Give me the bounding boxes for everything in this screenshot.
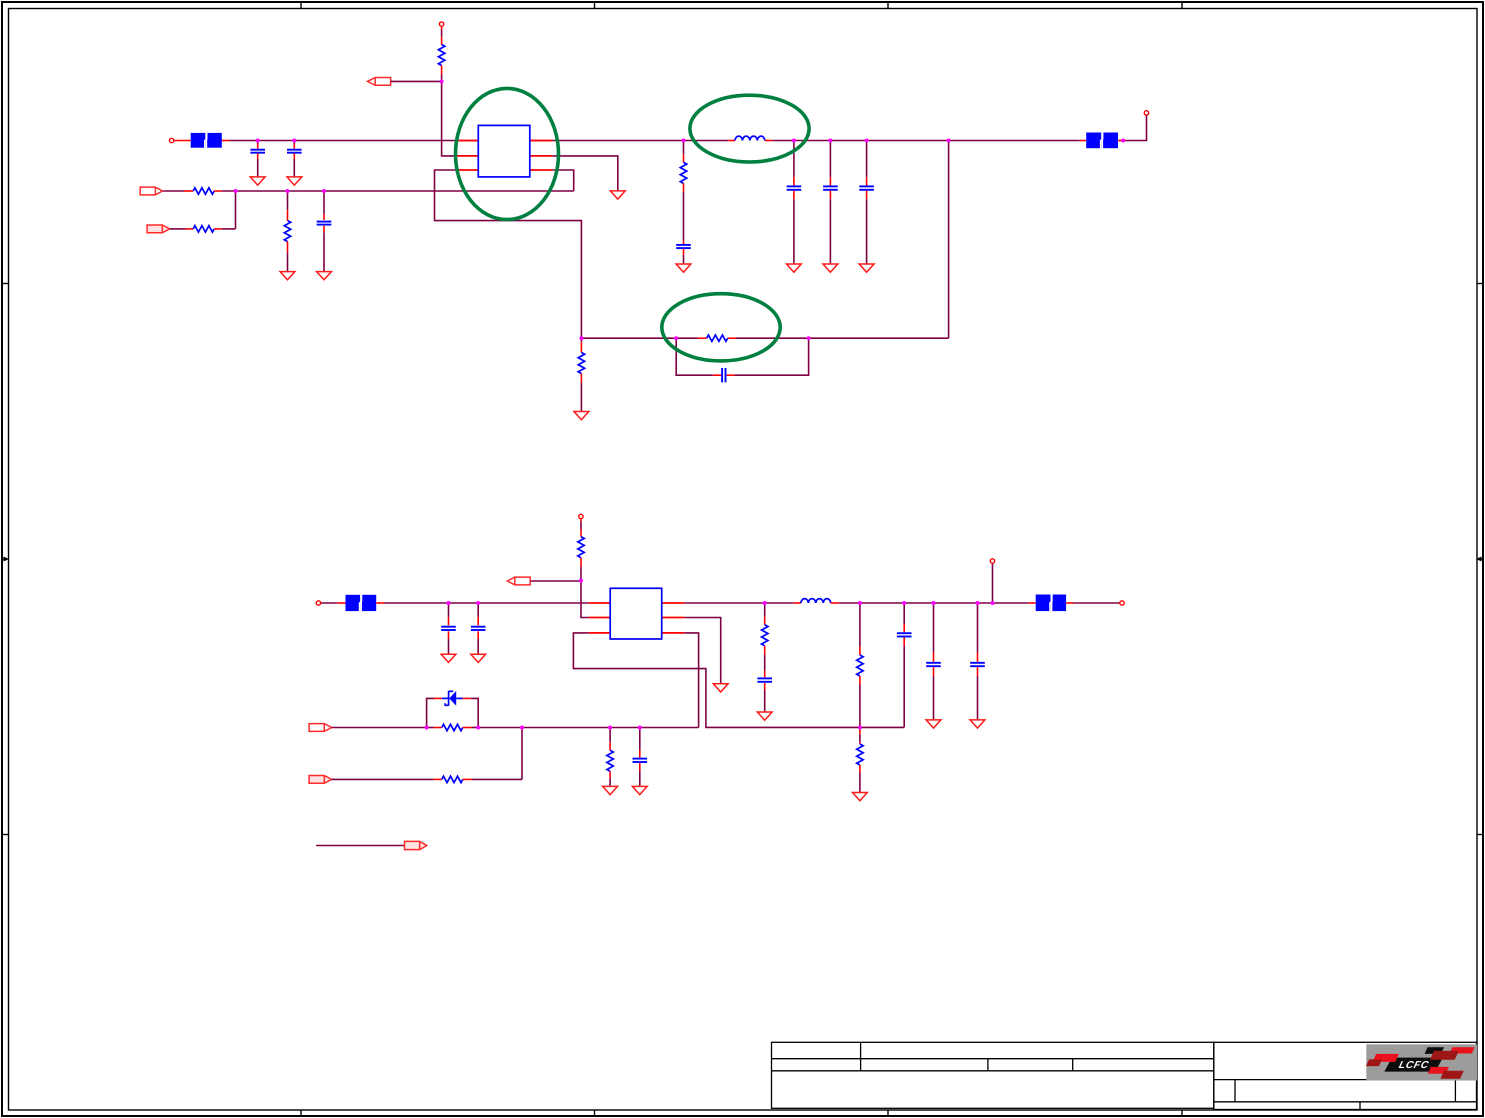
junction dots circuit2 — [425, 579, 995, 730]
wire FB3 pin stub — [376, 602, 384, 604]
inductor L2 — [794, 599, 839, 603]
border center arrow right — [1476, 557, 1483, 562]
capacitor C6 — [823, 141, 838, 265]
title block right row line 1 — [1214, 1079, 1477, 1081]
ground C7 — [859, 264, 874, 272]
logo black parallelogram — [1384, 1058, 1442, 1072]
border tick bottom 1 — [300, 1110, 302, 1116]
ground C2 — [287, 177, 302, 185]
title block left table outline — [772, 1042, 1214, 1108]
wire junction to U2 pin2 — [581, 581, 589, 618]
wire A5 to zener network — [332, 727, 427, 729]
wire A4 to junction — [530, 580, 581, 582]
capacitor C8 parallel — [676, 338, 808, 382]
ground R6 — [574, 412, 589, 420]
IC U2 body — [610, 588, 662, 639]
ground C6 — [823, 264, 838, 272]
IC U2 pin stubs — [589, 603, 685, 633]
off-page connector A5 — [309, 724, 332, 732]
logo red bar left — [1373, 1054, 1399, 1062]
resistor R4 riser — [438, 27, 444, 82]
ferrite bead FB1 — [191, 133, 222, 148]
border tick left 1 — [2, 283, 9, 285]
logo dark red bar left low — [1366, 1059, 1382, 1066]
off-page connector A4 — [507, 577, 530, 585]
capacitor C14 — [926, 603, 941, 720]
wire U1 pin2r to ground — [552, 156, 618, 191]
title block row line 1 — [772, 1058, 1214, 1060]
title block right divider v1 — [1234, 1080, 1236, 1102]
ground C1 — [250, 177, 265, 185]
title block right row line 2 — [1214, 1101, 1477, 1103]
title block divider v2 — [987, 1059, 989, 1071]
border tick bottom 2 — [594, 1110, 596, 1116]
IC U1 pin stubs — [456, 141, 552, 171]
logo red bar bottom right — [1428, 1067, 1449, 1074]
resistor R6 fb lower — [578, 338, 584, 411]
capacitor C12 — [757, 671, 772, 713]
off-page connector A3 — [147, 225, 170, 233]
capacitor C4 — [676, 241, 691, 264]
ferrite bead FB2 — [1080, 133, 1126, 149]
resistor R2 — [170, 226, 236, 232]
wire output to FB row — [948, 141, 950, 339]
inductor L1 — [728, 136, 772, 140]
svg-text:LCFC: LCFC — [1398, 1060, 1431, 1071]
wire U2 pin3r to FB-A — [684, 633, 698, 728]
wire P4 to FB3 — [321, 602, 346, 604]
wire junction to U1 pin2 — [442, 82, 456, 156]
wire FB row right — [736, 337, 949, 339]
wire U2 pin3 loop to FB-B — [573, 633, 904, 728]
port P7 output — [1120, 601, 1124, 605]
ground U2 — [713, 684, 728, 692]
title block row line 2 — [772, 1070, 1214, 1072]
border tick left 2 — [2, 834, 9, 836]
wire main output rail — [772, 140, 1080, 142]
port P6 riser top — [579, 514, 583, 518]
ground C15 — [970, 720, 985, 728]
wire main rail mid — [684, 602, 794, 604]
ground C9 — [441, 654, 456, 662]
wire line2 to U1 pin3r — [552, 170, 574, 191]
port P2 top — [439, 22, 443, 26]
capacitor C7 — [859, 141, 874, 265]
junction dots circuit1 — [234, 80, 1126, 341]
logo dark red bar mid right — [1430, 1051, 1459, 1060]
capacitor C15 — [970, 603, 985, 720]
ground R12 — [757, 712, 772, 720]
wire main output rail 2 — [839, 602, 1029, 604]
zener diode D1 — [427, 691, 479, 728]
resistor R8 riser — [578, 519, 584, 580]
wire FB-A row — [478, 727, 698, 729]
resistor R7 feedback — [698, 335, 736, 341]
wire P1 to FB1 — [174, 140, 190, 142]
resistor R9 — [427, 724, 479, 730]
border tick bottom 4 — [1181, 1110, 1183, 1116]
off-page connector A2 — [140, 187, 162, 195]
title block divider v3 — [1072, 1059, 1074, 1071]
off-page connector A6 — [309, 776, 332, 784]
wire U2 pin2r to ground — [684, 618, 721, 684]
resistor R11 — [607, 728, 613, 787]
off-page connector A1 — [368, 78, 391, 86]
resistor R13 — [857, 603, 863, 727]
title block divider v1 — [860, 1042, 862, 1071]
ground C14 — [926, 720, 941, 728]
logo background — [1366, 1044, 1477, 1080]
wire main input rail — [230, 140, 729, 142]
resistor R3 — [284, 191, 290, 272]
wire A1 to junction — [391, 80, 442, 82]
ground R14 — [853, 793, 868, 801]
wire line2 from A2 — [163, 190, 185, 192]
logo black bar top right — [1425, 1047, 1444, 1054]
ground C5 — [787, 264, 802, 272]
highlight ellipse E3 — [690, 95, 809, 162]
logo red bar top right — [1450, 1047, 1475, 1053]
wire main input rail 2 — [384, 602, 589, 604]
ground R3 — [280, 272, 295, 280]
highlight ellipse E2 — [662, 294, 780, 361]
IC U1 body — [478, 125, 530, 176]
wire R2 up to line2 — [235, 191, 237, 229]
wire riser to port P5 — [992, 564, 994, 603]
resistor R5 output — [680, 141, 686, 241]
ferrite bead FB3 — [346, 595, 377, 611]
ferrite bead FB4 — [1029, 595, 1073, 612]
resistor R1 — [184, 188, 222, 194]
resistor R12 — [762, 603, 768, 671]
border tick right 2 — [1477, 834, 1483, 836]
wire FB row left — [581, 337, 698, 339]
capacitor C1 — [250, 141, 265, 177]
wire FB4 to port P7 — [1073, 602, 1119, 604]
resistor R10 — [332, 776, 522, 782]
capacitor C5 — [787, 141, 802, 265]
wire U1 pin3 loop to FB node — [435, 170, 582, 338]
port P1 input — [169, 138, 173, 142]
port P5 — [990, 559, 994, 563]
port P4 input — [316, 601, 320, 605]
wire line2 mid — [222, 190, 574, 192]
title block right divider v3 — [1359, 1102, 1361, 1110]
capacitor C13 — [897, 603, 912, 727]
border tick top 2 — [594, 2, 596, 9]
border tick top 1 — [300, 2, 302, 9]
border tick bottom 3 — [887, 1110, 889, 1116]
wire FB2 to port P3 — [1126, 116, 1147, 141]
ground U1 — [610, 191, 625, 199]
highlight ellipse E1 — [456, 88, 559, 219]
border tick top 3 — [887, 2, 889, 9]
off-page connector A7 — [405, 841, 427, 849]
resistor R14 — [857, 727, 863, 792]
ground C3 — [317, 272, 332, 280]
capacitor C10 — [471, 603, 486, 654]
ground C10 — [471, 654, 486, 662]
title block right table outline — [1214, 1042, 1477, 1109]
logo dark red bar bottom right2 — [1440, 1071, 1463, 1079]
wire FB1 pin stub — [222, 140, 230, 142]
wire standalone net — [316, 845, 404, 847]
capacitor C2 — [287, 141, 302, 177]
ground R5 — [676, 264, 691, 272]
wire R10 up to FB-A — [521, 728, 523, 780]
ground R11 — [603, 786, 618, 794]
border tick top 4 — [1181, 2, 1183, 9]
port P3 output — [1144, 111, 1148, 115]
border tick right 1 — [1477, 283, 1483, 285]
capacitor C3 — [317, 191, 332, 272]
ground C11 — [632, 786, 647, 794]
capacitor C11 — [633, 728, 648, 787]
capacitor C9 — [441, 603, 456, 654]
title block right divider v2 — [1454, 1080, 1456, 1102]
border center arrow left — [2, 557, 9, 562]
